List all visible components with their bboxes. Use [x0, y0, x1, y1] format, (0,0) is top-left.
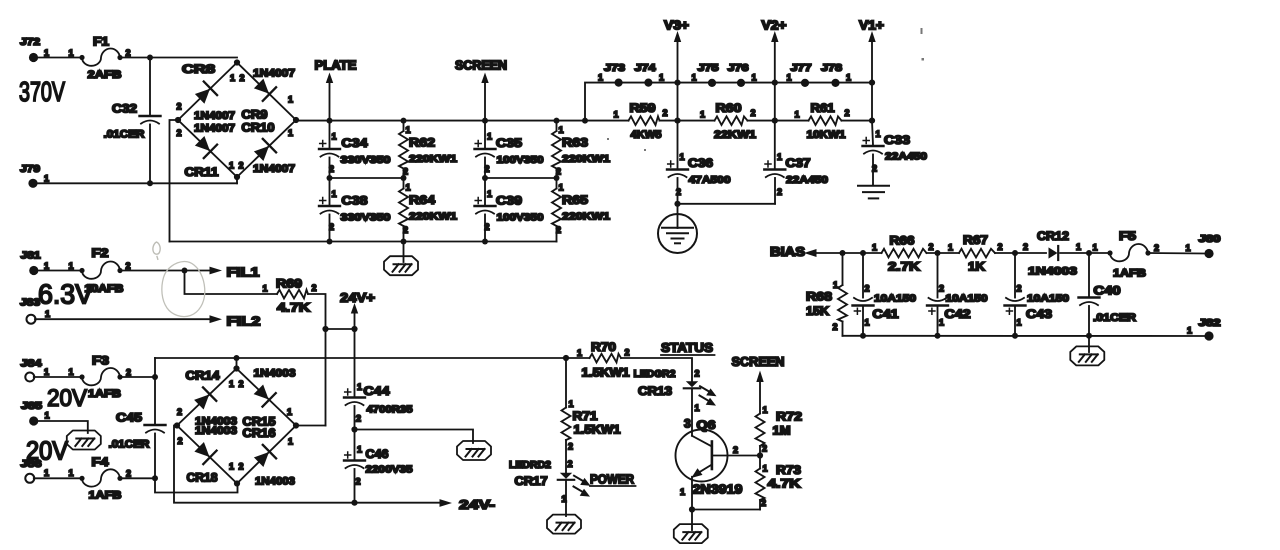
svg-text:22A450: 22A450: [885, 151, 927, 163]
wire mid rail plate: [330, 177, 404, 179]
svg-text:20V: 20V: [47, 385, 88, 412]
resistor R59: [614, 101, 668, 141]
node R68 top junction: [840, 250, 846, 256]
svg-text:1: 1: [357, 445, 362, 455]
svg-text:SCREEN: SCREEN: [732, 354, 785, 369]
node C32 top junction: [147, 55, 153, 61]
net V3+ arrow: [664, 19, 689, 121]
node F3 junction: [152, 374, 158, 380]
wire riser to bridge bottom vertex: [236, 177, 238, 183]
svg-text:F4: F4: [92, 455, 109, 469]
svg-text:C33: C33: [884, 133, 910, 147]
svg-text:1: 1: [229, 462, 234, 472]
node R63 top junction: [554, 118, 560, 124]
svg-text:2: 2: [663, 108, 668, 118]
svg-text:1: 1: [1186, 243, 1191, 253]
svg-text:220KW1: 220KW1: [562, 211, 610, 223]
connector J75: [692, 63, 720, 87]
ground earth under C33: [858, 186, 889, 199]
svg-text:LEDGR2: LEDGR2: [634, 368, 676, 380]
svg-text:2: 2: [177, 102, 182, 112]
wire mid rail screen: [485, 177, 557, 179]
node bridge 2 top junction: [234, 355, 240, 361]
svg-text:2: 2: [485, 164, 490, 174]
wire J73 branch riser: [585, 83, 678, 121]
svg-text:10A150: 10A150: [946, 293, 988, 305]
wire F4 to junction: [120, 477, 155, 479]
diode CR9: [252, 77, 276, 101]
connector J77: [787, 63, 813, 87]
wire J79 to bridge bottom: [38, 182, 238, 184]
svg-text:330V350: 330V350: [341, 154, 391, 166]
svg-text:1: 1: [777, 152, 782, 162]
net V2+ arrow: [762, 19, 787, 121]
node FIL1 junction: [182, 268, 188, 274]
svg-text:1: 1: [487, 132, 492, 142]
node base junction: [757, 452, 763, 458]
svg-text:1: 1: [833, 280, 838, 290]
svg-text:1.5KW1: 1.5KW1: [574, 423, 621, 437]
svg-text:1: 1: [69, 367, 74, 377]
svg-text:R69: R69: [276, 277, 302, 291]
svg-text:C45: C45: [116, 411, 142, 425]
wire AC top rail to R70: [155, 357, 590, 359]
svg-text:2: 2: [625, 348, 630, 358]
svg-text:STATUS: STATUS: [661, 340, 713, 355]
svg-text:1: 1: [876, 129, 881, 139]
svg-text:2: 2: [865, 284, 870, 294]
diode bridge 1 frame: [175, 59, 299, 180]
node C36 bottom junction: [674, 201, 680, 207]
svg-text:1: 1: [939, 318, 944, 328]
connector J74: [635, 63, 665, 87]
node C44 bottom junction: [351, 426, 357, 432]
capacitor C36: [667, 121, 731, 204]
svg-text:1: 1: [577, 348, 582, 358]
ground chassis J85: [67, 431, 101, 450]
svg-text:1AFB: 1AFB: [88, 388, 121, 400]
svg-text:1: 1: [1017, 318, 1022, 328]
svg-text:1: 1: [332, 189, 337, 199]
svg-text:1N4003: 1N4003: [254, 368, 296, 380]
wire J72 to F1: [38, 57, 83, 59]
svg-text:J72: J72: [20, 37, 41, 48]
svg-text:2: 2: [939, 284, 944, 294]
diode CR10: [252, 139, 276, 163]
svg-text:J73: J73: [604, 63, 626, 74]
svg-text:C35: C35: [496, 136, 522, 150]
svg-text:1: 1: [288, 437, 293, 447]
svg-text:1: 1: [44, 367, 49, 377]
resistor R62: [399, 121, 457, 178]
svg-text:24V-: 24V-: [459, 497, 495, 512]
svg-text:.01CER: .01CER: [1093, 312, 1136, 324]
node C43 top junction: [1012, 250, 1018, 256]
svg-text:R68: R68: [806, 290, 832, 304]
svg-text:2: 2: [777, 187, 782, 197]
svg-text:CR17: CR17: [515, 474, 548, 488]
LED CR17: [509, 459, 574, 504]
capacitor C42: [927, 253, 988, 336]
wire F3 riser to AC rail: [154, 358, 156, 377]
svg-text:V1+: V1+: [859, 19, 884, 33]
pen scribble exclamation: [153, 242, 160, 259]
svg-text:1: 1: [406, 183, 411, 193]
bias bottom rail: [843, 335, 1205, 337]
diode CR12: [1023, 229, 1089, 278]
speck marks: [607, 28, 924, 151]
svg-text:1: 1: [752, 73, 757, 83]
svg-text:2: 2: [329, 164, 334, 174]
wire C36 C37 bottom link: [678, 203, 776, 205]
bottom rail: [170, 241, 557, 243]
svg-text:C40: C40: [1094, 284, 1121, 298]
svg-text:2AFB: 2AFB: [88, 69, 122, 81]
svg-text:F1: F1: [93, 35, 109, 49]
svg-text:R71: R71: [573, 409, 598, 423]
node V2+ jack junction: [772, 80, 778, 86]
connector J80: [1186, 234, 1222, 258]
svg-text:1: 1: [288, 95, 293, 105]
wire left node down to bridge 2: [325, 329, 327, 426]
svg-text:J82: J82: [1199, 318, 1222, 329]
svg-text:2: 2: [762, 444, 767, 454]
capacitor C41: [853, 253, 917, 336]
wire J81 to F2: [38, 270, 82, 272]
svg-text:R65: R65: [562, 193, 588, 207]
capacitor C32: [104, 58, 161, 184]
svg-text:SCREEN: SCREEN: [455, 59, 507, 73]
node V3+ rail junction: [674, 118, 680, 124]
node C40 top junction: [1086, 250, 1092, 256]
node C42 top junction: [935, 250, 941, 256]
bridge 2 labels: [177, 368, 296, 488]
svg-text:F3: F3: [92, 354, 109, 368]
svg-text:2: 2: [239, 161, 244, 171]
resistor R68: [806, 253, 847, 336]
LED CR17 light arrows: [574, 476, 591, 486]
svg-text:1: 1: [559, 183, 564, 193]
svg-text:FIL2: FIL2: [227, 314, 261, 329]
LED CR13 light arrows: [700, 386, 717, 396]
svg-text:J81: J81: [21, 251, 42, 262]
svg-text:R70: R70: [591, 340, 616, 354]
svg-text:4700R35: 4700R35: [367, 404, 413, 416]
transistor Q6: [676, 417, 743, 510]
diode CR14: [192, 387, 216, 411]
svg-text:2: 2: [929, 242, 934, 252]
net FIL1 arrow: [210, 265, 260, 280]
svg-text:C36: C36: [688, 156, 713, 170]
svg-text:R67: R67: [963, 233, 988, 247]
svg-text:2200V35: 2200V35: [366, 464, 413, 476]
capacitor C43: [1005, 253, 1070, 336]
svg-text:CR18: CR18: [187, 471, 218, 485]
svg-text:1: 1: [659, 73, 664, 83]
svg-text:J83: J83: [20, 298, 41, 309]
svg-text:2: 2: [751, 108, 756, 118]
node C41 top junction: [860, 250, 866, 256]
svg-text:4KW5: 4KW5: [631, 129, 662, 141]
svg-text:2: 2: [1023, 242, 1028, 252]
svg-text:F5: F5: [1119, 229, 1136, 243]
svg-text:J85: J85: [21, 401, 43, 412]
net 24V- arrow: [440, 497, 496, 512]
wire J75 J76 row: [678, 82, 775, 84]
svg-text:4.7K: 4.7K: [768, 477, 801, 491]
svg-text:1AFB: 1AFB: [89, 490, 122, 502]
ground chassis under C40: [1070, 336, 1104, 366]
connector J82: [1187, 318, 1221, 341]
wire J86 to F4: [34, 477, 82, 479]
diode CR16: [252, 445, 276, 469]
svg-text:2: 2: [403, 167, 408, 177]
diode CR8: [193, 82, 217, 106]
svg-text:2: 2: [568, 459, 573, 469]
svg-text:BIAS: BIAS: [770, 244, 805, 259]
node V2+ rail junction: [772, 118, 778, 124]
wire riser to bridge 2 top vertex: [236, 358, 238, 369]
capacitor C34: [319, 121, 391, 178]
svg-text:1: 1: [1093, 243, 1098, 253]
svg-text:2: 2: [356, 414, 361, 424]
svg-text:J84: J84: [21, 359, 43, 370]
svg-text:R60: R60: [716, 101, 742, 115]
svg-text:C46: C46: [366, 447, 389, 461]
svg-text:1: 1: [230, 73, 235, 83]
svg-text:2: 2: [998, 242, 1003, 252]
svg-text:24V+: 24V+: [340, 290, 375, 305]
svg-text:2: 2: [676, 187, 681, 197]
wire bridge 2 right vertex to riser: [296, 425, 326, 427]
node 24V+ left dot: [322, 326, 328, 332]
svg-text:22A450: 22A450: [786, 174, 828, 186]
svg-text:PLATE: PLATE: [315, 59, 357, 73]
svg-text:2: 2: [126, 469, 131, 479]
node PLATE arrow: [315, 59, 357, 121]
svg-text:CR14: CR14: [186, 369, 220, 383]
wire R70 to CR13: [621, 358, 692, 381]
svg-text:2: 2: [240, 73, 245, 83]
capacitor C40: [1079, 253, 1137, 336]
svg-text:C44: C44: [364, 384, 390, 398]
capacitor C39: [475, 178, 544, 242]
svg-text:1: 1: [872, 243, 877, 253]
svg-text:J78: J78: [821, 63, 843, 74]
svg-text:1: 1: [287, 407, 292, 417]
svg-text:CR16: CR16: [243, 426, 276, 440]
svg-text:2: 2: [126, 368, 131, 378]
svg-text:1: 1: [288, 128, 293, 138]
svg-text:1: 1: [569, 399, 574, 409]
svg-text:J80: J80: [1199, 234, 1222, 245]
node emitter junction: [689, 506, 695, 512]
node C32 bottom junction: [147, 180, 153, 186]
net STATUS label: [661, 340, 715, 355]
svg-text:2: 2: [556, 167, 561, 177]
svg-text:1: 1: [1187, 326, 1192, 336]
node C46 bottom junction: [351, 500, 357, 506]
svg-text:1: 1: [700, 110, 705, 120]
svg-text:C38: C38: [342, 194, 368, 208]
wire J83 to FIL2: [35, 318, 211, 320]
wire F5 to J80: [1148, 252, 1205, 255]
node R62 top junction: [401, 118, 407, 124]
diode bridge 2 frame: [174, 365, 299, 486]
svg-text:1: 1: [263, 284, 268, 294]
svg-text:22KW1: 22KW1: [714, 129, 756, 141]
fuse F3: [79, 354, 131, 401]
svg-text:1: 1: [787, 73, 792, 83]
svg-text:1: 1: [45, 309, 50, 319]
svg-text:R72: R72: [776, 410, 802, 424]
wire CR12 to F5: [1089, 252, 1110, 254]
svg-text:2: 2: [845, 108, 850, 118]
node bottom rail dots: [327, 239, 333, 245]
svg-text:2: 2: [556, 225, 561, 235]
svg-text:R64: R64: [409, 193, 435, 207]
wire right node down to C44: [354, 329, 356, 397]
svg-text:1AFB: 1AFB: [1113, 268, 1146, 280]
svg-text:1M: 1M: [773, 424, 791, 438]
svg-text:100V350: 100V350: [497, 154, 544, 166]
svg-text:CR11: CR11: [185, 165, 219, 179]
connector J79: [20, 164, 49, 188]
svg-text:2: 2: [761, 498, 766, 508]
capacitor C35: [475, 121, 544, 178]
svg-text:1: 1: [229, 161, 234, 171]
net V1+ arrow: [859, 19, 884, 121]
resistor R71: [562, 358, 621, 473]
connector J78: [821, 63, 851, 87]
svg-text:1: 1: [44, 468, 49, 478]
svg-text:R59: R59: [630, 101, 656, 115]
svg-text:1K: 1K: [968, 260, 985, 274]
svg-text:C37: C37: [786, 156, 811, 170]
connector J81: [21, 251, 74, 276]
svg-text:4.7K: 4.7K: [277, 301, 310, 315]
svg-text:6.3V: 6.3V: [38, 279, 94, 310]
svg-text:1: 1: [332, 132, 337, 142]
svg-text:1N4007: 1N4007: [194, 123, 235, 135]
svg-text:1: 1: [598, 73, 603, 83]
svg-text:330V350: 330V350: [341, 212, 391, 224]
wire J85 to ground: [38, 421, 88, 433]
svg-text:2: 2: [177, 128, 182, 138]
svg-text:3: 3: [684, 417, 691, 431]
svg-text:J74: J74: [635, 63, 657, 74]
wire node link: [326, 328, 355, 330]
svg-text:F2: F2: [92, 246, 109, 260]
svg-text:CR10: CR10: [242, 121, 275, 135]
svg-text:1: 1: [763, 464, 768, 474]
bridge 1 labels: [177, 62, 296, 179]
svg-text:J75: J75: [698, 63, 720, 74]
svg-text:10A150: 10A150: [1027, 293, 1069, 305]
svg-text:2: 2: [403, 225, 408, 235]
wire J84 to F3: [34, 376, 82, 378]
node V1+ jack junction: [869, 80, 875, 86]
wire bridge left vertex down to bottom rail: [170, 120, 179, 242]
capacitor C33: [863, 121, 928, 186]
svg-text:1N4007: 1N4007: [253, 68, 295, 80]
svg-text:.01CER: .01CER: [109, 439, 150, 451]
svg-text:1: 1: [695, 403, 700, 413]
capacitor C37: [764, 121, 828, 204]
capacitor C45: [109, 377, 166, 478]
svg-text:1: 1: [763, 405, 768, 415]
svg-text:2: 2: [1154, 243, 1159, 253]
svg-text:V3+: V3+: [664, 19, 689, 33]
node PLATE junction: [327, 118, 333, 124]
svg-text:2: 2: [312, 283, 317, 293]
net 24V+ arrow: [340, 290, 375, 329]
svg-text:2N3919: 2N3919: [693, 482, 743, 497]
svg-text:2: 2: [126, 261, 131, 271]
node F4 junction: [152, 475, 158, 481]
svg-text:2: 2: [126, 48, 131, 58]
resistor R61: [795, 101, 850, 141]
svg-text:220KW1: 220KW1: [409, 211, 457, 223]
ground chassis under CR17: [547, 515, 581, 534]
svg-text:100V350: 100V350: [497, 212, 544, 224]
wire CR17 to ground: [565, 480, 567, 516]
svg-text:1N4007: 1N4007: [253, 163, 295, 175]
svg-text:J77: J77: [791, 63, 813, 74]
net BIAS arrow: [770, 244, 1046, 259]
wire R69 to 24V+ node: [308, 294, 326, 329]
node bias bottom dots: [860, 333, 866, 339]
svg-text:1: 1: [795, 110, 800, 120]
net FIL2 arrow: [210, 314, 261, 329]
ground earth circle under C36: [658, 204, 697, 253]
node J73 branch junction: [582, 118, 588, 124]
diode CR18: [192, 440, 216, 464]
resistor R73: [756, 456, 802, 510]
capacitor C46: [344, 430, 413, 503]
ground chassis mid: [457, 441, 491, 460]
resistor R64: [399, 178, 457, 242]
resistor R69: [263, 277, 317, 315]
svg-text:370V: 370V: [19, 76, 65, 107]
svg-text:1N4003: 1N4003: [1028, 266, 1077, 278]
pen scribble loop: [162, 261, 205, 316]
wire CR13 to Q6 collector: [691, 388, 693, 436]
resistor R65: [552, 178, 610, 242]
connector J86: [21, 459, 74, 483]
node mid rail screen dots: [482, 175, 488, 181]
svg-text:1: 1: [44, 48, 49, 58]
svg-text:1N4003: 1N4003: [195, 425, 237, 437]
wire J77 J78 row: [775, 82, 872, 84]
svg-text:1: 1: [69, 261, 74, 271]
svg-text:1: 1: [357, 382, 362, 392]
connector J76: [728, 63, 757, 87]
svg-text:C43: C43: [1026, 307, 1052, 321]
svg-text:47A500: 47A500: [689, 174, 731, 186]
svg-text:1N4007: 1N4007: [194, 110, 235, 122]
connector J72: [20, 37, 74, 62]
svg-text:CR8: CR8: [182, 62, 215, 76]
svg-text:R66: R66: [890, 234, 915, 248]
svg-text:2: 2: [239, 379, 244, 389]
node R70 R71 junction: [563, 355, 569, 361]
node 24V+ right dot: [351, 326, 357, 332]
svg-text:2: 2: [329, 222, 334, 232]
svg-text:10KW1: 10KW1: [807, 129, 846, 141]
fuse F2: [79, 246, 130, 295]
svg-text:C32: C32: [112, 102, 137, 116]
